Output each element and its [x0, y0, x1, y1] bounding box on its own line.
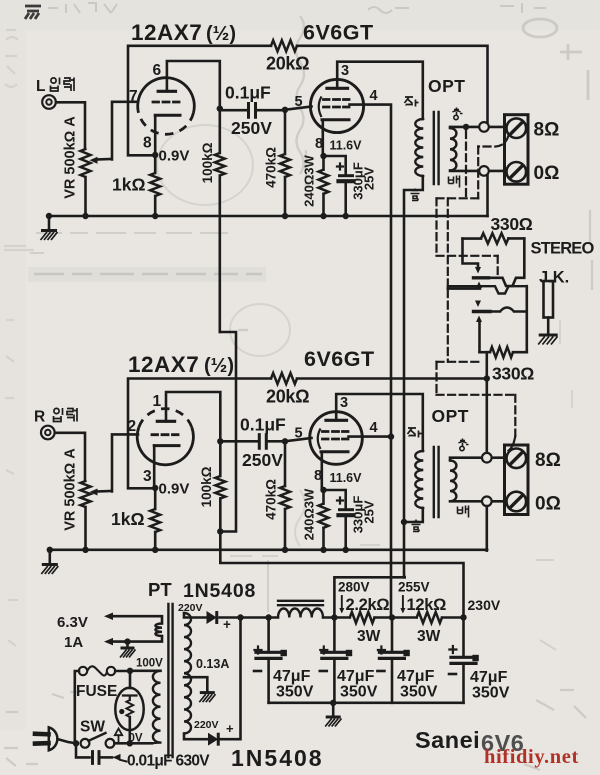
svg-text:47μF: 47μF	[470, 669, 508, 686]
ground jack sleeve	[539, 334, 558, 337]
faint scan fold line	[267, 560, 269, 612]
svg-text:240Ω3W: 240Ω3W	[302, 154, 317, 206]
svg-text:6V6GT: 6V6GT	[303, 21, 374, 45]
svg-text:255V: 255V	[398, 580, 430, 595]
svg-text:1kΩ: 1kΩ	[112, 175, 146, 195]
svg-text:8: 8	[314, 468, 322, 484]
dark corner mark top-left	[25, 6, 41, 19]
HV bottom tap 220V	[184, 734, 208, 740]
svg-text:330Ω: 330Ω	[492, 364, 534, 384]
PT primary winding	[153, 671, 161, 743]
PT HV secondary	[184, 613, 191, 734]
OPT L core	[434, 112, 439, 184]
faint bleed rows between channels	[30, 233, 228, 253]
ground symbol L input	[48, 216, 51, 230]
svg-text:100kΩ: 100kΩ	[200, 142, 215, 183]
V2 grids	[324, 98, 350, 101]
svg-text:(½): (½)	[206, 23, 236, 45]
terminal block R	[505, 445, 529, 515]
node 0.1uF-470k junction R	[282, 438, 288, 444]
svg-text:250V: 250V	[231, 118, 272, 138]
svg-text:SW: SW	[80, 719, 105, 736]
node feedback tap 8ohm L	[463, 124, 469, 130]
svg-text:470kΩ: 470kΩ	[264, 147, 279, 188]
V4 screen pin4 wire	[349, 435, 392, 438]
svg-text:FUSE: FUSE	[76, 683, 117, 700]
PT core	[168, 604, 172, 757]
pilot lamp NE	[129, 671, 132, 688]
wire 100V tap	[130, 669, 161, 672]
svg-text:0Ω: 0Ω	[535, 494, 561, 515]
svg-text:20kΩ: 20kΩ	[266, 387, 309, 407]
svg-text:47μF: 47μF	[337, 668, 375, 685]
faint bleedthrough bottom left	[4, 690, 586, 770]
svg-text:3W: 3W	[417, 628, 441, 645]
node 255V	[389, 614, 395, 620]
V4 plate pin3	[326, 419, 347, 422]
filter cap C1 47uF	[265, 614, 271, 620]
filter choke CH1	[278, 601, 323, 605]
tube 6V6GT V2 envelope L	[310, 79, 363, 132]
resistor 20k L	[271, 40, 297, 51]
V2 plate pin3	[327, 87, 348, 90]
svg-text:100V: 100V	[136, 658, 163, 670]
svg-text:280V: 280V	[338, 580, 370, 595]
dashed link from 8ohm node L down	[465, 131, 467, 198]
ground symbol R input	[48, 550, 51, 564]
svg-text:6V6GT: 6V6GT	[304, 347, 375, 371]
svg-text:12kΩ: 12kΩ	[407, 596, 447, 614]
svg-text:0Ω: 0Ω	[534, 163, 560, 184]
terminal screw 0ohm L	[507, 162, 527, 182]
PSU ground rail	[269, 701, 464, 704]
svg-text:12AX7: 12AX7	[131, 20, 202, 45]
svg-text:1A: 1A	[64, 634, 83, 651]
svg-text:350V: 350V	[276, 684, 314, 701]
svg-text:20kΩ: 20kΩ	[266, 54, 309, 74]
svg-text:Sanei: Sanei	[415, 727, 480, 753]
terminal screw 8ohm L	[507, 118, 527, 138]
capacitor 0.1uF L coupling	[220, 109, 285, 112]
potentiometer VR2 zigzag	[81, 481, 91, 507]
faint bleedthrough right top blobs	[523, 19, 588, 100]
triangle marker	[115, 729, 122, 736]
V1b grid pin2	[152, 433, 178, 436]
wire plug to switch	[59, 740, 76, 744]
svg-text:11.6V: 11.6V	[330, 471, 363, 485]
svg-text:7: 7	[129, 88, 138, 105]
Korean label heuk (black) L	[411, 189, 420, 201]
svg-text:0.9V: 0.9V	[159, 148, 190, 165]
OPT R core	[434, 447, 439, 517]
faint bleedthrough top row	[48, 3, 546, 13]
svg-text:8: 8	[143, 135, 152, 152]
HV top tap 220V	[184, 613, 207, 618]
faint bleedthrough left margin glyphs	[4, 30, 34, 474]
svg-text:3: 3	[340, 395, 348, 411]
ground rail R channel	[50, 548, 487, 551]
svg-text:(½): (½)	[204, 355, 234, 377]
svg-text:25V: 25V	[362, 500, 377, 523]
svg-text:230V: 230V	[468, 597, 501, 613]
svg-text:1N5408: 1N5408	[231, 745, 324, 771]
node 230V	[442, 616, 464, 619]
dashed bus upper jack	[437, 197, 479, 199]
rectifier diode D1 1N5408	[207, 611, 217, 624]
filter cap C2 47uF	[333, 618, 336, 651]
svg-text:240Ω3W: 240Ω3W	[302, 488, 317, 540]
svg-text:1: 1	[153, 393, 162, 410]
open terminal circles L	[479, 122, 489, 132]
V4 grids	[323, 430, 349, 433]
Korean label baek (white) R	[458, 506, 469, 518]
resistor 1k L cathode	[154, 155, 157, 173]
svg-text:4: 4	[370, 420, 378, 436]
V1b plate pin1	[157, 420, 174, 423]
node 0.1uF-470k junction L	[282, 107, 288, 113]
resistor 12k 3W	[417, 612, 442, 623]
tube 12AX7 V1a envelope	[138, 78, 195, 113]
node cathode V1b	[152, 485, 158, 491]
dashed hook to 8ohm screw R	[509, 436, 516, 451]
svg-text:R: R	[34, 409, 45, 426]
resistor 100k R plate load	[217, 438, 223, 444]
svg-text:VR 500kΩ A: VR 500kΩ A	[63, 116, 79, 199]
OPT L secondary	[450, 128, 456, 171]
ground rail L channel	[49, 215, 488, 218]
svg-text:47μF: 47μF	[397, 668, 435, 685]
svg-text:0.1μF: 0.1μF	[225, 83, 271, 103]
svg-text:220V: 220V	[194, 719, 219, 731]
Korean label hwang (yellow) L	[453, 108, 463, 120]
resistor 470k L grid	[284, 110, 287, 154]
stereo jack upper contact set	[463, 239, 479, 266]
PSU main ground symbol	[332, 703, 335, 716]
tube 12AX7 V1b envelope	[137, 427, 193, 465]
mains plug	[35, 731, 49, 736]
node feedback tee R	[484, 375, 490, 381]
V2 screen pin4 wire	[350, 105, 392, 618]
rectifier diode D2 1N5408	[208, 733, 218, 746]
svg-text:2.2kΩ: 2.2kΩ	[346, 596, 390, 614]
Korean label jeok (red) L	[405, 97, 419, 107]
stub to R feedback node	[485, 352, 488, 378]
stereo jack sleeve	[544, 281, 554, 318]
svg-text:5: 5	[295, 426, 303, 442]
svg-text:220V: 220V	[178, 602, 203, 614]
R input jack J2	[41, 426, 55, 440]
svg-text:OPT: OPT	[432, 406, 469, 426]
V1a grid pin7	[153, 101, 179, 104]
feedback wire L 20k line	[128, 46, 271, 156]
B+ rail	[220, 616, 279, 619]
svg-text:47μF: 47μF	[273, 668, 311, 685]
V4 cathode pin8 R	[321, 450, 348, 453]
svg-text:6: 6	[153, 62, 162, 79]
svg-text:VR 500kΩ A: VR 500kΩ A	[63, 448, 79, 531]
svg-text:1N5408: 1N5408	[183, 580, 256, 602]
capacitor 0.1uF R coupling	[220, 440, 285, 443]
Korean label heuk (black) R	[412, 520, 421, 532]
terminal block L	[505, 115, 529, 185]
faint bleedthrough middle column	[238, 16, 592, 330]
svg-text:350V: 350V	[472, 685, 510, 702]
svg-text:0.13A: 0.13A	[196, 657, 229, 671]
svg-text:470kΩ: 470kΩ	[264, 479, 279, 520]
Korean label jeok (red) R	[408, 428, 422, 438]
svg-text:8Ω: 8Ω	[534, 120, 560, 141]
filter cap C4 47uF	[462, 617, 465, 655]
svg-text:5: 5	[295, 94, 303, 110]
svg-text:OPT: OPT	[428, 76, 465, 96]
svg-text:3: 3	[341, 63, 349, 79]
svg-text:0.1μF: 0.1μF	[240, 415, 286, 435]
svg-text:350V: 350V	[340, 684, 378, 701]
resistor 1k R cathode	[154, 488, 157, 509]
resistor 470k R grid	[284, 441, 287, 486]
Korean label baek (white) L	[449, 176, 460, 188]
svg-text:8: 8	[315, 136, 323, 152]
svg-text:0.9V: 0.9V	[159, 481, 190, 498]
V1a cathode pin8	[155, 114, 180, 117]
potentiometer VR1 500k zigzag	[81, 149, 91, 177]
D2 output to B+ node	[221, 618, 241, 740]
svg-text:12AX7: 12AX7	[128, 352, 199, 377]
B+ link from L channel	[220, 332, 236, 532]
fuse F1	[75, 671, 79, 743]
svg-text:hifidiy.net: hifidiy.net	[484, 746, 579, 768]
wire jack to pot top	[56, 102, 85, 149]
tube 6V6GT V4 envelope R	[310, 412, 363, 465]
svg-text:3W: 3W	[357, 628, 381, 645]
svg-text:25V: 25V	[362, 167, 377, 190]
OPT R secondary	[450, 461, 456, 502]
L input jack J1	[42, 95, 56, 109]
VR1 wiper arrow and wire to grid	[96, 158, 112, 161]
svg-text:250V: 250V	[242, 450, 283, 470]
svg-text:1kΩ: 1kΩ	[111, 509, 145, 529]
svg-text:STEREO: STEREO	[531, 240, 595, 258]
svg-text:3: 3	[143, 468, 152, 485]
open terminal circles R	[482, 453, 492, 463]
0ohm ground return R	[485, 506, 488, 550]
svg-text:6.3V: 6.3V	[57, 614, 88, 631]
HV center tap ground	[184, 677, 207, 691]
stereo jack lower contact set	[448, 286, 527, 293]
V1b cathode pin3	[154, 444, 179, 447]
VR2 wiper arrow	[96, 490, 112, 493]
node fuse-lamp-100V	[127, 668, 133, 674]
dashed bus lower jack	[447, 290, 449, 362]
node 280V	[331, 614, 337, 620]
0ohm ground return L	[486, 176, 489, 216]
PT heater winding 6.3V	[155, 624, 162, 637]
resistor 330ohm lower	[480, 351, 491, 354]
resistor 240ohm 3W R	[322, 490, 325, 504]
capacitor 0.01uF line filter	[76, 743, 90, 757]
capacitor 330uF 25V L	[324, 156, 346, 174]
svg-text:350V: 350V	[400, 684, 438, 701]
feedback wire R 20k line	[128, 379, 271, 489]
svg-text:+: +	[223, 617, 231, 632]
svg-text:L: L	[36, 78, 45, 95]
terminal screw 8ohm R	[507, 449, 527, 469]
resistor 100k L plate load	[217, 105, 223, 111]
svg-text:8Ω: 8Ω	[535, 450, 561, 471]
svg-text:0V: 0V	[129, 733, 143, 745]
resistor 240ohm 3W L	[322, 156, 325, 170]
svg-text:330Ω: 330Ω	[491, 214, 533, 234]
resistor 20k R	[271, 373, 297, 384]
V2 cathode pin8 L	[322, 118, 349, 121]
svg-text:100kΩ: 100kΩ	[199, 466, 214, 507]
Korean label hwang (yellow) R	[459, 439, 469, 451]
svg-text:11.6V: 11.6V	[330, 139, 363, 153]
V1a plate pin6	[158, 90, 175, 93]
node cathode V1a 0.9V	[152, 152, 158, 158]
svg-text:+: +	[226, 721, 234, 736]
filter cap C3 47uF	[391, 618, 394, 651]
terminal screw 0ohm R	[507, 492, 527, 512]
capacitor 330uF 25V R	[324, 490, 346, 508]
wire jack to pot top R	[55, 433, 85, 481]
svg-text:PT: PT	[148, 579, 172, 600]
svg-text:4: 4	[370, 88, 378, 104]
resistor 2.2k 3W	[350, 612, 375, 623]
dashed hook from 8ohm screw L	[478, 136, 508, 147]
